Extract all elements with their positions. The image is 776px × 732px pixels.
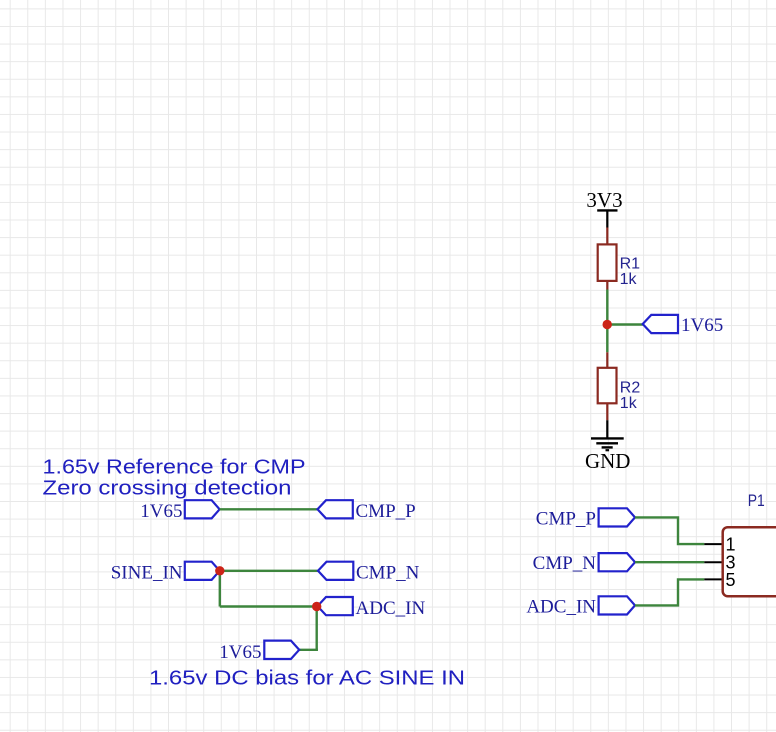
svg-text:P1: P1 <box>748 491 765 510</box>
port 1V65 (mid right) <box>643 315 678 333</box>
wire SINE_IN down <box>219 571 221 607</box>
wire R1 to node 1V65 <box>606 290 608 353</box>
port ADC_IN (right group) <box>526 596 635 617</box>
resistor R2 <box>598 368 617 420</box>
svg-text:1V65: 1V65 <box>219 642 261 663</box>
svg-text:CMP_N: CMP_N <box>533 553 597 574</box>
junction node ADC_IN <box>312 602 321 611</box>
svg-text:GND: GND <box>585 449 631 473</box>
wire 1V65 to CMP_P <box>220 508 318 510</box>
junction node 1V65 <box>603 320 612 329</box>
svg-text:5: 5 <box>726 570 736 590</box>
wire 3V3 to R1 <box>606 228 608 245</box>
svg-text:ADC_IN: ADC_IN <box>356 598 426 619</box>
svg-text:CMP_P: CMP_P <box>356 501 416 522</box>
connector P1 body <box>723 527 776 596</box>
pin 1 of P1 <box>704 543 722 545</box>
port CMP_P (row 1 right) <box>318 500 416 522</box>
port CMP_N (row 2 right) <box>318 562 420 584</box>
wire CMP_N to P1 pin 3 <box>635 561 704 563</box>
wire node 1V65 to R2 <box>606 352 608 368</box>
svg-text:3V3: 3V3 <box>586 188 622 212</box>
port 1V65 (row 4 bottom) <box>219 641 299 664</box>
power symbol 3V3 <box>586 188 622 228</box>
port ADC_IN (row 3) <box>318 597 426 619</box>
svg-text:1V65: 1V65 <box>681 315 723 336</box>
port SINE_IN (row 2 left) <box>111 562 220 584</box>
port CMP_N (right group) <box>533 553 635 574</box>
wire CMP_P to P1 pin 1 <box>635 517 704 544</box>
svg-text:1.65v Reference for CMP: 1.65v Reference for CMP <box>43 457 306 479</box>
svg-text:Zero crossing detection: Zero crossing detection <box>43 478 292 500</box>
svg-text:CMP_N: CMP_N <box>356 562 420 583</box>
wire ADC_IN to P1 pin 5 <box>635 579 704 605</box>
svg-text:ADC_IN: ADC_IN <box>526 596 596 617</box>
wire node 1V65 to port <box>607 323 643 325</box>
junction node SINE_IN <box>215 566 224 575</box>
pin 3 of P1 <box>704 561 722 563</box>
wire across to ADC_IN node <box>220 605 317 607</box>
svg-text:1.65v DC bias for AC SINE IN: 1.65v DC bias for AC SINE IN <box>149 668 465 690</box>
svg-text:1k: 1k <box>620 395 638 412</box>
pin 5 of P1 <box>704 578 722 580</box>
svg-text:SINE_IN: SINE_IN <box>111 562 183 583</box>
ground GND <box>585 438 631 473</box>
port 1V65 (row 1 left) <box>140 500 219 522</box>
wire R2 to GND <box>606 420 608 438</box>
wire to bottom 1V65 port <box>299 649 318 651</box>
svg-text:1k: 1k <box>620 271 638 288</box>
svg-text:1: 1 <box>726 534 736 554</box>
wire SINE_IN to CMP_N <box>220 570 318 572</box>
wire ADC_IN node down <box>316 607 318 651</box>
svg-text:CMP_P: CMP_P <box>536 508 596 529</box>
port CMP_P (right group) <box>536 508 635 529</box>
resistor R1 <box>598 244 617 289</box>
svg-text:1V65: 1V65 <box>140 501 182 522</box>
